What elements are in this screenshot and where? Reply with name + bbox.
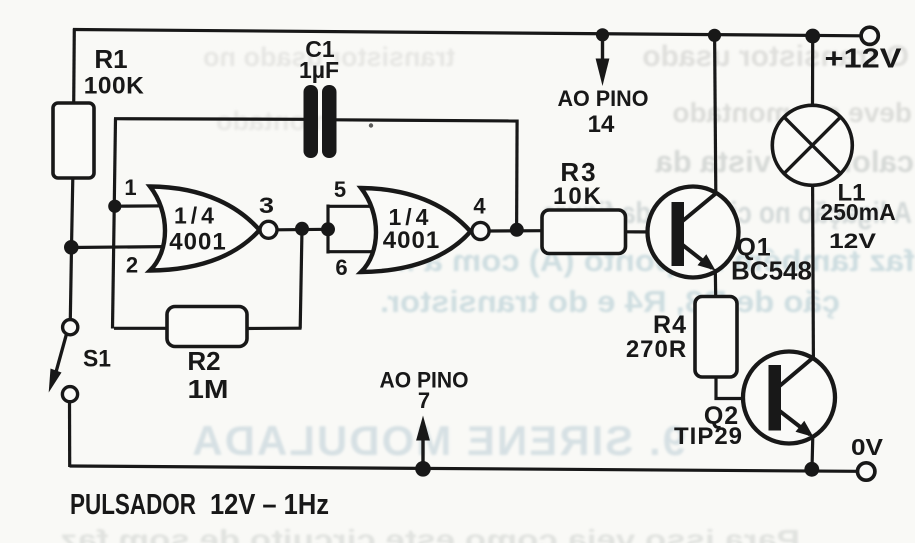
- node: pin3 junction dot: [295, 222, 309, 236]
- wire: R3 to Q1 base: [626, 230, 673, 233]
- node: gate2 input bracket dot: [321, 222, 335, 236]
- wire: C1 left horizontal: [114, 117, 304, 121]
- svg-text:5: 5: [334, 177, 346, 202]
- wire: +12V top rail: [73, 30, 861, 36]
- transistor Q1: [648, 187, 739, 278]
- label U1a: [169, 203, 226, 256]
- wire: Q2 emitter to bottom rail: [810, 436, 814, 469]
- switch S1: [49, 320, 78, 402]
- wire: Q1 emitter to R4: [714, 269, 718, 297]
- wire: Q2 collector to L1: [811, 186, 815, 357]
- label U1b: [383, 204, 440, 254]
- node: pin 1 junction dot: [108, 200, 121, 213]
- node: AO PINO 14 rail dot: [596, 28, 609, 41]
- node label AO PINO 7: [380, 368, 469, 414]
- wire: Q1 collector to top rail: [715, 35, 716, 193]
- wire: gate2 input bracket: [327, 205, 386, 254]
- label Q1: [731, 234, 812, 286]
- node: Q2 emitter rail dot: [804, 462, 819, 477]
- pin label 5: [334, 177, 346, 202]
- node: L1 rail dot: [805, 29, 820, 44]
- svg-text:3: 3: [259, 193, 274, 218]
- svg-text:PULSADOR: PULSADOR: [70, 489, 196, 521]
- wire: L1 top to rail: [811, 36, 814, 106]
- wire: R4 to Q2 base: [716, 377, 770, 399]
- title PULSADOR 12V - 1Hz: [70, 489, 329, 521]
- svg-text:9. SIRENE MODULADA: 9. SIRENE MODULADA: [190, 417, 686, 464]
- wire: R2 feedback loop: [114, 229, 302, 329]
- svg-text:TIP29: TIP29: [674, 423, 743, 450]
- node: AO PINO 7 rail dot: [415, 461, 431, 477]
- svg-text:4: 4: [473, 194, 486, 219]
- svg-text:S1: S1: [83, 346, 111, 373]
- node: Q1 collector rail dot: [708, 29, 721, 42]
- wire: left drop from top rail to R1: [72, 29, 76, 105]
- svg-text:R4: R4: [653, 311, 687, 339]
- svg-text:100K: 100K: [84, 73, 145, 100]
- wire: AO PINO 14 arrow: [596, 38, 610, 86]
- pin label 4: [473, 194, 486, 219]
- pin label 2: [126, 253, 138, 278]
- value label C1: [299, 36, 339, 83]
- svg-text:250mA: 250mA: [820, 199, 895, 225]
- pin label 3: [259, 193, 274, 218]
- svg-text:ção de R3, R4 e do transistor.: ção de R3, R4 e do transistor.: [380, 284, 840, 319]
- wire: gate1 output to gate2 input: [277, 228, 329, 232]
- wire: AO PINO 7 arrow: [416, 416, 430, 465]
- resistor R4: [695, 297, 737, 378]
- value label R3: [553, 157, 603, 210]
- svg-text:BC548: BC548: [731, 256, 812, 286]
- svg-text:4001: 4001: [383, 227, 440, 254]
- svg-text:6: 6: [335, 255, 347, 280]
- value label R2: [187, 346, 228, 404]
- pin label 1: [124, 175, 136, 200]
- terminal +12V: [861, 27, 878, 44]
- wire: 0V bottom rail: [70, 466, 857, 471]
- value label R1: [84, 44, 145, 100]
- wire: C1 right horizontal to pin4 node: [336, 120, 518, 230]
- wire: pin 1 stub: [114, 204, 172, 208]
- svg-text:4001: 4001: [169, 229, 226, 256]
- svg-text:7: 7: [418, 388, 430, 413]
- svg-text:+12V: +12V: [825, 43, 902, 74]
- lamp L1: [772, 105, 852, 185]
- svg-text:12V – 1Hz: 12V – 1Hz: [210, 489, 329, 521]
- node: junction dot at R1/S1/pin2: [64, 240, 79, 255]
- svg-text:1M: 1M: [188, 374, 229, 404]
- svg-text:Para isso veja como este circu: Para isso veja como este circuito de som…: [60, 524, 800, 543]
- label +12V: [825, 43, 902, 74]
- node label AO PINO 14: [558, 86, 649, 138]
- node: pin4 junction dot: [510, 223, 524, 237]
- label S1: [83, 346, 111, 373]
- NOR gate U1a (1/4 4001): [150, 187, 277, 271]
- svg-text:R2: R2: [187, 346, 220, 376]
- wire: R1 bottom to S1: [70, 178, 73, 320]
- value label R4: [626, 311, 687, 363]
- wire: gate2 output to R3: [489, 229, 543, 233]
- svg-text:12V: 12V: [829, 229, 877, 253]
- svg-text:10K: 10K: [553, 183, 603, 210]
- resistor R3: [542, 210, 626, 254]
- svg-text:270R: 270R: [626, 336, 687, 363]
- svg-text:1µF: 1µF: [299, 57, 339, 83]
- value label L1: [820, 180, 895, 254]
- wire: S1 to bottom rail: [68, 400, 71, 467]
- svg-text:1: 1: [124, 175, 136, 200]
- wire: vertical feedback bus (C1/pin1/R2): [113, 119, 116, 329]
- svg-text:AO PINO: AO PINO: [558, 86, 649, 111]
- svg-text:0V: 0V: [851, 434, 884, 460]
- wire: pin 2 input wire: [71, 247, 176, 248]
- NOR gate U1b (1/4 4001): [361, 188, 489, 272]
- svg-text:14: 14: [588, 111, 615, 138]
- resistor R1: [53, 103, 94, 178]
- resistor R2: [167, 307, 247, 347]
- pin label 6: [335, 255, 347, 280]
- terminal 0V: [858, 463, 875, 480]
- capacitor C1: [304, 85, 337, 158]
- svg-text:2: 2: [126, 253, 138, 278]
- svg-text:1/4: 1/4: [174, 203, 218, 229]
- svg-text:R1: R1: [94, 44, 127, 74]
- label Q2: [674, 402, 743, 450]
- transistor Q2: [743, 352, 835, 444]
- label 0V: [851, 434, 884, 460]
